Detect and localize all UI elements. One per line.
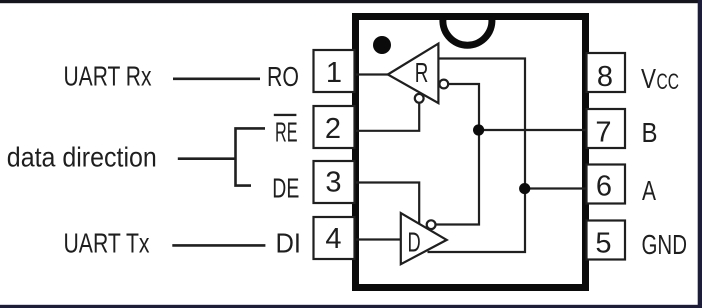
svg-text:B: B bbox=[642, 117, 658, 148]
frame top border bbox=[0, 0, 702, 3]
pin 2 box bbox=[314, 106, 355, 148]
pin 7 box bbox=[587, 109, 626, 148]
svg-text:A: A bbox=[642, 175, 656, 206]
pin 3 box bbox=[314, 161, 355, 203]
label RE overline bbox=[274, 114, 297, 116]
receiver inverting input bubble bbox=[439, 80, 448, 89]
svg-text:5: 5 bbox=[595, 228, 611, 260]
pin 1 box bbox=[314, 50, 355, 92]
wire pin1 RO to receiver output bbox=[356, 73, 388, 75]
svg-text:UART Tx: UART Tx bbox=[64, 228, 150, 259]
pin 8 box bbox=[587, 53, 626, 92]
svg-text:2: 2 bbox=[325, 113, 341, 145]
receiver R triangle bbox=[388, 44, 439, 104]
wire data direction dash bbox=[178, 157, 236, 160]
driver D triangle bbox=[401, 213, 447, 264]
IC pin-1 marker dot bbox=[373, 36, 391, 54]
pin 4 box bbox=[314, 217, 355, 259]
svg-text:3: 3 bbox=[325, 167, 341, 199]
svg-text:R: R bbox=[415, 57, 429, 88]
wire net A stub to pin 6 bbox=[525, 187, 587, 189]
svg-text:DE: DE bbox=[272, 173, 299, 204]
svg-text:UART Rx: UART Rx bbox=[64, 61, 152, 92]
frame bottom border bbox=[0, 305, 702, 308]
wire pin2 RE to receiver enable bubble bbox=[356, 103, 419, 131]
svg-text:6: 6 bbox=[596, 171, 612, 203]
svg-text:8: 8 bbox=[597, 61, 613, 93]
wire UART Rx dash bbox=[173, 78, 260, 81]
svg-text:DI: DI bbox=[276, 228, 302, 259]
wire pin4 DI to driver input bbox=[356, 238, 401, 240]
frame right border bbox=[698, 0, 702, 308]
junction node A bbox=[519, 183, 530, 194]
junction node B bbox=[473, 124, 484, 135]
pin 5 box bbox=[587, 221, 626, 260]
svg-text:V: V bbox=[641, 63, 656, 94]
svg-text:4: 4 bbox=[325, 223, 341, 255]
svg-text:data direction: data direction bbox=[7, 142, 157, 173]
receiver enable bubble bbox=[415, 94, 424, 103]
svg-text:RE: RE bbox=[275, 117, 298, 148]
wire UART Tx dash bbox=[172, 244, 265, 247]
wire net B: receiver - bubble, driver inverting bubble, pin 7 bbox=[436, 84, 479, 225]
svg-text:7: 7 bbox=[595, 117, 611, 149]
svg-text:RO: RO bbox=[267, 61, 299, 92]
wire pin3 DE to driver enable bbox=[356, 183, 419, 224]
svg-text:D: D bbox=[408, 227, 421, 258]
driver inverting output bubble bbox=[427, 220, 436, 229]
svg-text:GND: GND bbox=[642, 229, 688, 260]
svg-text:CC: CC bbox=[657, 69, 680, 94]
wire net B stub to pin 7 bbox=[479, 129, 587, 131]
IC U1 package outline bbox=[356, 17, 586, 288]
svg-text:1: 1 bbox=[326, 57, 342, 89]
wire data direction bracket to RE and DE bbox=[236, 128, 266, 185]
pin 6 box bbox=[587, 165, 626, 204]
IC pin-1 end notch bbox=[443, 16, 492, 45]
wire net A: receiver + input, driver output, pin 6 bbox=[428, 59, 526, 253]
